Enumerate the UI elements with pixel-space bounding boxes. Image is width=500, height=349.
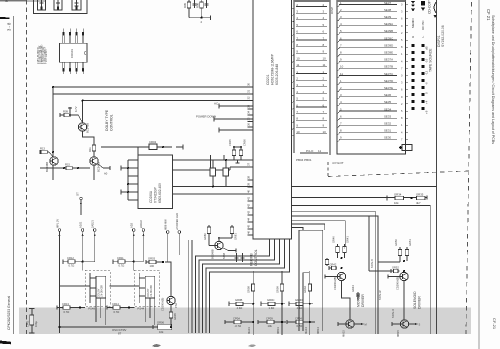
left page margin solid rule [13,16,15,334]
wire Q102 down to y190 [52,165,54,180]
wire DISP01 row SE32 [339,122,403,128]
svg-text:CD201: CD201 [266,74,270,85]
svg-text:DRIVER: DRIVER [418,296,422,309]
svg-text:CR05: CR05 [228,139,232,146]
svg-text:CD290A(B): CD290A(B) [333,277,337,290]
svg-text:10k: 10k [394,201,399,205]
PCB outline dashed stub [327,162,329,177]
svg-text:CPK282/3253 General: CPK282/3253 General [7,296,11,330]
svg-text:CR13: CR13 [62,302,69,306]
svg-text:GR44: GR44 [351,285,355,292]
DISP01 right pin stubs [406,5,408,140]
svg-text:4 P.ILOT: 4 P.ILOT [332,161,344,165]
wire Q power led emitter with cap [223,248,236,253]
svg-text:CR12: CR12 [67,256,74,260]
transistor Q motor lower [342,320,355,337]
wire AD2 down [133,262,135,271]
svg-text:L: L [421,36,425,38]
CD201 bottom pin stubs [270,239,290,246]
wire CD201 P40 y184.5 [292,186,437,188]
IC CD201 microcontroller HD6172M8 [253,0,292,239]
junction dots bus [52,86,84,102]
svg-text:11: 11 [340,72,343,76]
wire DOLBY HX-L input [60,285,90,287]
svg-text:DRIVER: DRIVER [361,294,365,307]
wire PL01 row pin 7 [296,110,327,114]
svg-text:CD290A(B): CD290A(B) [161,298,165,311]
transistor Q103 [90,157,101,172]
svg-text:PS44: PS44 [137,307,144,311]
svg-text:-0.7Ω: -0.7Ω [235,324,242,328]
resistor R102 vertical [196,0,204,18]
svg-text:SE30: SE30 [384,136,391,140]
terminal ADJ1 [78,221,83,262]
svg-text:43: 43 [247,210,251,214]
svg-text:CP0A: CP0A [233,316,240,320]
svg-text:+8: +8 [425,110,429,114]
wire DISP01 row SE31 [339,129,403,135]
svg-text:SE35: SE35 [384,100,391,104]
svg-text:MB15: MB15 [396,330,400,337]
wire DISP01 row SE37C [339,72,403,78]
wire PL01 row pin 1 [296,70,327,74]
svg-text:39: 39 [247,182,251,186]
transistor Q101 [78,123,89,133]
resistor GR0D 4.3&#937; [289,298,313,310]
arrow glyph below bracket [434,15,437,18]
wire DISP01 row SE30 [339,136,403,142]
svg-text:BC548B: BC548B [97,162,101,172]
transistor Q solenoid lower [396,320,409,337]
svg-text:GR0A: GR0A [303,286,307,293]
wire PL01 row pin 4 [296,90,327,94]
capacitor solenoid base [391,265,400,273]
XT3422 right pin wires [173,160,254,194]
svg-text:CP09: CP09 [266,316,273,320]
svg-text:CF-21: CF-21 [492,318,497,330]
wire CR05 CR06 tie [233,146,242,163]
svg-text:MA14: MA14 [304,327,308,334]
resistor CR11 0.7ohm [113,256,143,268]
trimmer component 1 [38,0,46,10]
capacitor motor base [329,262,337,270]
svg-text:GR41: GR41 [346,236,350,243]
scan mark bottom 1 [152,344,161,347]
junction dot q102 [52,151,54,153]
resistor CR13 0.7ohm [57,302,85,314]
svg-text:SE39B: SE39B [384,29,393,33]
svg-text:CONTROL: CONTROL [254,249,258,266]
resistor GR09 column x282 [275,271,283,335]
svg-text:SE39A: SE39A [384,22,393,26]
svg-text:OT: OT [76,192,80,196]
svg-text:42: 42 [247,203,251,207]
stub T-bar solenoid [388,274,400,278]
svg-text:DC BC: DC BC [421,20,425,30]
svg-text:11: 11 [323,63,326,67]
resistor GR0B 4.3&#937; [229,298,253,310]
svg-text:10: 10 [323,130,327,134]
svg-text:36: 36 [247,122,251,126]
resistor CP04 0.7&#937; [287,316,315,328]
svg-text:LN-36-089: LN-36-089 [101,285,104,297]
net labels tape [371,259,395,318]
wire PL01 row pin 5 [296,23,327,27]
svg-text:GR05: GR05 [173,313,177,320]
svg-text:3 - 8: 3 - 8 [7,22,12,31]
wire MPL column down to y327 [58,262,60,333]
svg-text:ADJ1: ADJ1 [78,221,82,228]
wire PL01 row pin 9 [296,50,327,54]
svg-text:R13: R13 [40,146,45,150]
display block rows [339,1,412,151]
wire DISP01 row SE37B [339,65,403,71]
LED segment column 2 (level meter L) [421,44,424,110]
resistor vertical CP01 left [26,309,39,334]
wire bundle verticals into gray [188,240,192,333]
resistor R power led [203,225,211,241]
svg-text:10: 10 [340,65,344,69]
svg-text:CF 21: CF 21 [486,9,491,21]
wire PL01 row pin 2 [296,3,327,7]
LED segment column 1 (MEMO/R indicators) [411,44,414,110]
svg-text:546B: 546B [222,253,226,259]
svg-text:DOLBY TYPE: DOLBY TYPE [105,109,109,131]
svg-text:MA15: MA15 [342,330,346,337]
wire DISP01 row SE37D [339,79,403,85]
svg-text:CD-COPY: CD-COPY [428,0,432,14]
svg-text:MB6 MW: MB6 MW [164,219,168,230]
junction dots row2 [252,321,311,323]
svg-text:-16: -16 [425,58,429,63]
module box DOLBY HX-L dashed [85,270,110,306]
svg-text:32: 32 [247,96,251,100]
svg-text:DISP: DISP [330,7,334,14]
wire PL01 row pin 3 [296,10,327,14]
resistor CP0A -0.7&#937; [225,316,253,328]
wire PL01 row pin 6 [296,103,327,107]
wire Q103 emitter y168 right [98,164,110,176]
svg-text:R09: R09 [63,109,68,113]
capacitor CR05 [228,139,236,160]
svg-text:-6: -6 [425,82,429,85]
svg-text:GR03: GR03 [148,256,156,260]
terminal MPL 2V [55,219,61,262]
svg-text:BC546B: BC546B [45,162,49,172]
svg-text:11: 11 [296,63,299,67]
svg-text:SE37: SE37 [384,1,391,5]
IC CD290 XT3422GP [138,155,173,209]
svg-text:GR60: GR60 [203,233,207,240]
svg-text:10k: 10k [268,324,273,328]
svg-text:CD101: CD101 [70,49,74,58]
svg-text:CD290A: CD290A [149,190,153,203]
resistor GR0C 1.3&#937; [261,298,285,310]
trimmer component 3 [72,0,81,10]
wire DOLBY HX-R internal left [139,273,145,303]
svg-text:SE34: SE34 [384,107,391,111]
resistor CP09 10k [258,316,286,328]
wire PL01 row pin 11 [296,63,327,67]
resistor CR14 0.7ohm [107,302,134,314]
svg-text:0.7Ω: 0.7Ω [69,264,75,268]
wire PL01 row pin 8 [296,117,327,121]
wire PILO pin 11 [300,149,328,153]
svg-text:R06: R06 [196,3,200,8]
svg-text:R05: R05 [183,3,187,8]
svg-text:PS48: PS48 [88,307,95,311]
wire CD201 P44 y215 [292,216,379,334]
resistor R114 on y168 [65,162,72,169]
svg-text:CR06: CR06 [243,139,247,146]
gray top edge smear [0,0,45,2]
svg-text:MA13: MA13 [247,327,251,334]
wire DISP01 row SE36 [339,93,403,99]
svg-text:GR61: GR61 [234,233,238,240]
terminal AD2 [130,222,136,262]
IC DOLBY HX-L [96,276,106,298]
DISP01 entry hooks [337,5,339,142]
terminal 2ADJ2 [139,220,145,262]
CD101 pin function list [38,45,48,64]
svg-text:45: 45 [247,224,251,228]
resistor GR08 column x253 [247,271,255,335]
svg-text:SE38: SE38 [384,8,391,12]
svg-text:4.3Ω: 4.3Ω [297,306,303,310]
svg-text:40: 40 [247,189,251,193]
transistor Q power led BC548B [211,241,227,259]
svg-text:SE33: SE33 [384,114,391,118]
wire DISP01 row SE39B [339,29,403,35]
svg-text:TAPE-B: TAPE-B [371,259,374,268]
svg-text:AD2: AD2 [130,222,134,228]
wire ADJ1 down through [82,262,84,271]
svg-text:CP01: CP01 [26,320,30,327]
svg-text:7 VCC SUPPLY: 7 VCC SUPPLY [46,49,48,64]
svg-text:0.7Ω: 0.7Ω [114,310,120,314]
svg-text:CR14: CR14 [112,302,119,306]
svg-text:PS2: PS2 [174,303,178,308]
svg-text:GR34: GR34 [394,192,402,196]
PL01 entry hooks [292,7,294,137]
capacitor C101 vertical [192,0,196,8]
wire CD201 P47 y227 [292,228,304,231]
resistor R112 left of Q102 [40,146,53,157]
resistor R solenoid base [394,239,402,261]
svg-text:SE39C: SE39C [384,36,393,40]
svg-text:LN-36-089: LN-36-089 [150,285,153,297]
resistor R111 vertical above Q103 [88,141,96,157]
svg-text:GR06: GR06 [157,320,165,324]
wire PL01 row pin 4 [296,16,327,20]
wire DISP01 row SE37E [339,86,403,92]
svg-text:MB13: MB13 [276,327,280,334]
svg-text:SE39E: SE39E [384,51,393,55]
wire DOLBY HX-R input [109,285,139,287]
capacitor C102 vertical [204,0,208,8]
resistor GR03 [146,256,164,268]
PCB outline dashed vertical right [466,2,472,334]
wire DISP01 row SE35 [339,100,403,106]
wire dolby box pin drops [96,298,106,325]
wire solenoid lower out arrow [409,323,421,327]
wire CD201 P43 y211 [292,211,376,334]
wire vertical x53 [52,87,54,157]
svg-text:CP04: CP04 [295,316,302,320]
resistor CR12 0.7ohm [63,256,95,268]
wire PL01 row pin 2 [296,77,327,81]
wire bus DOLBY control y87 [53,86,253,88]
wire motor lower out arrow [354,323,366,327]
svg-text:SY192-020.06: SY192-020.06 [441,25,445,47]
svg-text:100: 100 [150,264,155,268]
PCB outline dashed horizontal [328,171,468,177]
svg-text:SE37C: SE37C [384,72,393,76]
connector PL01 ribbon block [294,0,330,155]
wire PL01 row pin 3 [296,83,327,87]
svg-text:SE39: SE39 [384,15,391,19]
wire Q101 emitter down [83,131,95,141]
wire motor Q emitter [342,281,351,320]
svg-text:+4: +4 [425,100,429,104]
svg-text:GR42: GR42 [330,262,337,266]
svg-text:30: 30 [247,82,251,86]
svg-text:CR11: CR11 [117,256,124,260]
resistor GR0A column x310 [303,271,311,335]
wire DISP01 row SE39C [339,36,403,42]
terminal 2ADJ1 [91,220,96,262]
CD101 bottom pin leads [63,62,84,74]
svg-text:100µ: 100µ [34,321,38,327]
svg-text:dB: dB [425,46,429,50]
svg-text:1.3Ω: 1.3Ω [269,306,275,310]
terminal arrow OT [76,192,83,215]
wire XT3422 drops [211,155,225,168]
svg-text:M: M [365,323,367,327]
wire solenoid Q emitter [403,281,405,320]
terminal POWER LED [175,213,181,255]
wire PS2 collector up [165,262,171,296]
svg-text:46: 46 [247,230,251,234]
svg-text:S: S [419,323,421,327]
svg-text:CONTROL: CONTROL [110,114,114,131]
svg-text:MPL 2V: MPL 2V [55,219,59,228]
capacitor C at R110 [68,107,72,116]
stub T-bar lower solenoid [392,322,400,326]
wire bus y100 [100,100,253,102]
capacitor motor out [351,285,360,300]
wire Q power led base [209,237,220,245]
svg-text:R15: R15 [65,162,70,166]
gray photo band across lower schematic [19,308,471,335]
wire dolby box pin drops [145,298,155,325]
CD101 top pin leads [63,29,84,44]
trimmer dark tips [41,7,78,10]
svg-text:HD6172M8-1196/FP: HD6172M8-1196/FP [271,53,275,85]
left fold dashed rule [26,0,28,334]
scan mark bottom 2 [248,344,256,347]
wire PL01 row pin 10 [296,56,327,60]
svg-text:Kopie: Kopie [4,0,9,2]
svg-text:MEMO: MEMO [411,18,415,28]
resistor R solenoid base2 [405,239,412,261]
wire DISP01 row SE33 [339,114,403,120]
resistor R101 vertical [183,0,191,18]
svg-text:11: 11 [318,149,321,153]
wire PL01 row pin 10 [296,130,327,134]
transistor PS2 CD290A(B) [161,296,179,311]
svg-text:38: 38 [247,175,251,179]
svg-text:SE37A: SE37A [384,58,393,62]
wire DISP01 row SE38 [339,8,403,14]
svg-text:44: 44 [247,217,251,221]
svg-text:SE36: SE36 [384,93,391,97]
resistor PS2 emitter [169,305,177,327]
svg-text:GR08: GR08 [247,286,251,293]
svg-text:31: 31 [247,89,251,93]
svg-text:2ADJ1: 2ADJ1 [91,220,95,228]
IC CD101 dolby switch [60,43,87,62]
wire stub y130 [219,128,253,133]
thumb tab mark bottom-left [0,341,11,345]
svg-text:10: 10 [296,56,300,60]
svg-text:SE37B: SE37B [384,65,393,69]
svg-text:TAPE SOURCE: TAPE SOURCE [429,48,433,72]
stub T-bar lower motor [338,322,346,326]
svg-text:10: 10 [296,130,300,134]
wire x375 down to solenoid base [378,261,400,262]
terminal MB6 MW [164,219,170,262]
junction dots row1 [252,303,311,305]
wire bundle CD201 bottom to bottom-left [196,246,290,333]
svg-text:SOLENOID: SOLENOID [413,291,417,309]
svg-text:BC548B: BC548B [211,249,215,259]
svg-text:POWER DOWN: POWER DOWN [196,115,216,119]
svg-text:6305-206-848: 6305-206-848 [275,64,279,85]
svg-text:41: 41 [247,196,251,200]
wire DISP01 row SE39 [339,15,403,21]
wire DISP01 row SE39A [339,22,403,28]
svg-text:10: 10 [323,56,327,60]
svg-text:GR52: GR52 [392,265,399,269]
svg-text:SE39D: SE39D [384,43,393,47]
connector box CN101 top-left [34,0,88,14]
svg-text:TAPE-W: TAPE-W [379,290,382,300]
thumb tab mark top-left [0,17,10,19]
transistor Q102 [45,157,58,172]
wire x369 down [369,216,391,271]
enclosure box REC amp [299,230,323,331]
display assembly right edge [436,0,438,334]
wire DOLBY HX-L internal left [90,273,96,303]
right page border rule [478,0,480,349]
wire bus y94 [53,93,253,95]
resistor GR36 [325,258,328,266]
svg-text:MB14: MB14 [316,327,320,334]
svg-text:SE31: SE31 [384,129,391,133]
display block DISP01 outline [337,0,406,154]
svg-text:34: 34 [247,110,251,114]
svg-text:GR50: GR50 [394,239,398,246]
svg-text:GR09: GR09 [275,286,279,293]
wire DISP01 row SE39D [339,43,403,49]
tape transport icons above meter [411,1,425,11]
net labels MA MB bottom [247,327,320,334]
svg-text:0.7Ω: 0.7Ω [64,310,70,314]
capacitor C above XT3422 with wire y147 [101,140,183,155]
svg-text:XT3422GP: XT3422GP [154,187,158,203]
XT3422 left pin bus [121,160,138,200]
